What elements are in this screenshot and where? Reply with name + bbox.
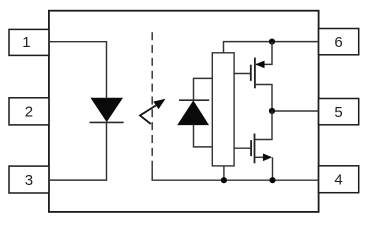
pin 6 [319,29,359,55]
svg-text:2: 2 [25,104,33,121]
wire pin1 to LED anode [49,42,107,98]
pin 4 [319,166,359,193]
pin 5 [319,99,359,125]
wire pin5 net [272,110,319,112]
light emission arrow [140,99,165,124]
svg-text:4: 4 [334,172,342,189]
mosfet Q2 (bottom) [234,134,272,181]
junction on pin5 net [269,108,275,114]
pin 1 [9,29,49,55]
pin 2 [9,98,49,125]
isolation barrier (dashed line) [151,32,153,166]
junction on pin6 net [269,39,275,45]
svg-text:3: 3 [25,172,33,189]
LED (input diode) [90,98,124,122]
wire LED cathode to pin3 [49,122,107,180]
wire ground bus to pin4 [152,166,318,180]
junction driver-bus [221,177,227,183]
wire photodiode anode to driver [194,125,213,147]
wire photodiode cathode to driver [194,78,213,100]
driver / control circuit block [212,53,234,166]
photodiode [178,100,209,125]
wire pin6 net [224,42,319,53]
wire pin5 junction to Q2 drain [255,111,273,140]
svg-text:1: 1 [22,34,30,51]
svg-text:6: 6 [334,34,342,51]
pin 3 [9,166,49,193]
junction Q2-bus [269,177,275,183]
svg-text:5: 5 [334,104,342,121]
wire pin6 junction to Q1 source [256,42,272,65]
mosfet Q1 (top) [234,58,272,111]
package body outline [49,11,319,212]
wire driver bottom to bus [223,166,225,180]
